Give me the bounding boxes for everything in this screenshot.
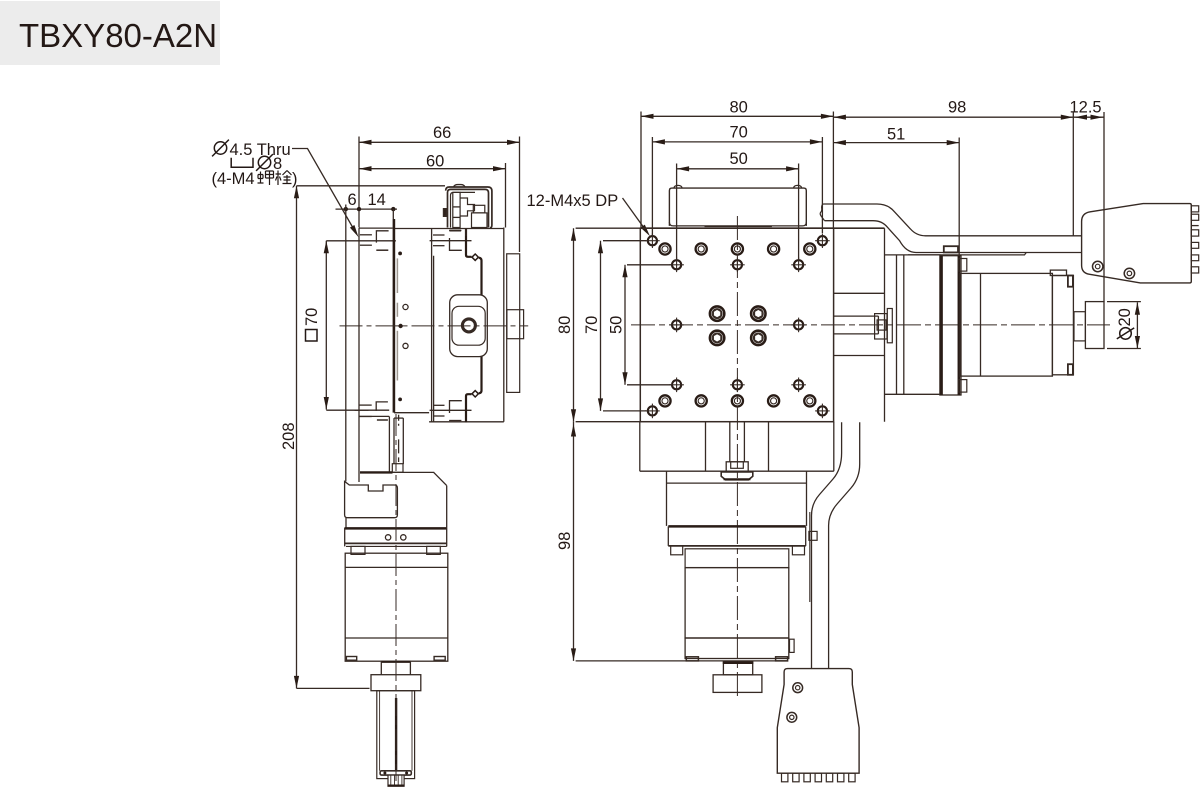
centerline vertical plan — [736, 216, 738, 699]
motor bottom foot left — [686, 657, 698, 661]
band bottom — [668, 545, 805, 547]
shaft end block — [392, 464, 403, 473]
bracket left edge — [345, 518, 347, 528]
shaft left — [393, 418, 395, 464]
side plate tab — [507, 310, 524, 339]
table left edge — [358, 228, 360, 482]
band top thick — [668, 525, 805, 528]
corner hole BR — [815, 404, 830, 419]
dim line 98 top — [833, 116, 1073, 118]
ref line 98 bottom — [576, 660, 686, 662]
svg-text:208: 208 — [280, 422, 298, 450]
svg-text:12-M4x5 DP: 12-M4x5 DP — [527, 192, 619, 210]
centerline horizontal left view — [340, 325, 529, 327]
svg-text:98: 98 — [556, 532, 574, 550]
cap top lip — [1050, 270, 1066, 275]
dim line 70 left — [600, 241, 602, 411]
leader line phi4.5 — [292, 149, 355, 231]
band left line — [812, 422, 842, 668]
plate top edge — [640, 227, 884, 229]
small hole — [403, 343, 408, 348]
tapped hole mid — [791, 318, 806, 333]
shaft top line — [394, 417, 403, 419]
dim line 70 top — [652, 141, 822, 143]
bracket inner bar — [453, 192, 460, 227]
arm upper edge — [823, 204, 1082, 236]
label phi symbol 4.5 — [212, 140, 229, 157]
connector screw 1 inner — [1095, 264, 1100, 269]
saddle step corner bottom — [450, 401, 462, 413]
coupling plate — [887, 309, 892, 343]
ref line 50 bottom — [627, 384, 671, 386]
line below bracket — [465, 229, 467, 237]
saddle long line — [430, 240, 472, 242]
svg-text:12.5: 12.5 — [1070, 99, 1102, 117]
base divider 2 — [768, 422, 770, 472]
cap tab top — [1068, 276, 1073, 287]
base bottom edge — [640, 470, 834, 472]
dim line 12.5 — [1073, 116, 1104, 118]
saddle profile top — [466, 229, 472, 257]
tapped hole row2 — [791, 258, 806, 273]
ext line 51 right — [958, 138, 960, 260]
flange thick right — [958, 256, 961, 395]
bracket top edge — [393, 471, 435, 473]
base top edge — [395, 228, 504, 230]
corner hole TR — [815, 233, 830, 248]
dim line 80 top — [641, 115, 833, 117]
top row hole 2 — [696, 243, 707, 254]
ref line phi20 top — [1107, 301, 1141, 303]
table bottom edge — [355, 409, 390, 411]
arm lower edge — [825, 221, 1082, 253]
svg-text:70: 70 — [583, 316, 601, 334]
collar top thick — [381, 661, 410, 663]
cap side tab — [790, 639, 795, 652]
ext line 66 right — [519, 137, 521, 253]
flange side tab bottom — [959, 380, 967, 393]
tube inner line — [411, 691, 413, 771]
ext line 98 right — [1072, 112, 1074, 236]
dim line sq70 — [325, 241, 327, 410]
motor divider 2 — [345, 637, 448, 639]
tapped hole row4 — [730, 378, 745, 393]
flange band left — [344, 528, 346, 547]
dim line 66 — [359, 141, 520, 143]
ext line 50 right — [798, 164, 800, 260]
saddle gap line 2 — [433, 256, 435, 422]
bracket chamfer — [434, 472, 447, 485]
tongue block body — [669, 188, 806, 226]
Y connector screw 2 inner — [790, 715, 794, 719]
saddle step line — [433, 245, 445, 247]
bracket right edge — [446, 486, 448, 528]
top row hole 3 — [732, 243, 743, 254]
top row hole 1 — [659, 243, 670, 254]
motor foot right — [792, 546, 804, 555]
centerline horizontal plan — [631, 324, 1110, 326]
bracket bar divider — [453, 216, 460, 218]
side block line — [834, 292, 885, 294]
svg-text:50: 50 — [608, 316, 626, 334]
ref line sq70 top — [326, 240, 396, 242]
svg-text:80: 80 — [556, 316, 574, 334]
svg-text:98: 98 — [948, 99, 966, 117]
motor body line — [980, 273, 982, 376]
Y connector teeth — [782, 773, 788, 782]
table step line bottom 2 — [359, 416, 371, 418]
tube outer — [377, 691, 415, 779]
svg-text:70: 70 — [730, 124, 748, 142]
flange hole — [385, 535, 390, 540]
mark below bracket — [450, 230, 462, 232]
flange hole — [401, 535, 406, 540]
ext line 60 right — [505, 163, 507, 228]
saddle gap line — [431, 229, 433, 422]
flange top line — [667, 482, 807, 484]
svg-text:51: 51 — [887, 126, 905, 144]
boss inner — [452, 306, 485, 345]
bracket inner frame — [451, 192, 476, 227]
svg-text:50: 50 — [730, 150, 748, 168]
table step line — [360, 234, 372, 236]
svg-text:20: 20 — [1116, 308, 1134, 326]
dim line phi20 — [1136, 302, 1138, 348]
ext line 14 — [392, 209, 394, 219]
dim line 80 left — [573, 228, 575, 422]
bottom row hole 2 — [696, 395, 707, 406]
knob block — [371, 675, 421, 691]
Y collar — [723, 662, 752, 675]
dim text phi20 — [1117, 328, 1134, 340]
table bottom edge 2 — [359, 415, 389, 417]
table lower column right edge — [388, 416, 390, 472]
screw housing bottom — [834, 333, 878, 335]
bracket top dome — [454, 185, 466, 187]
Y connector screw 2 outer — [787, 712, 797, 722]
svg-text:(4-M4: (4-M4 — [212, 170, 255, 188]
band left — [667, 526, 669, 546]
ext line 70 right — [821, 137, 823, 233]
dim text square-70 — [303, 308, 321, 341]
ref line 70 bottom — [603, 410, 647, 412]
tongue dome right — [794, 185, 802, 188]
corner hole BL — [645, 404, 660, 419]
flange side tab top — [959, 259, 967, 272]
flange foot right — [427, 546, 441, 554]
ext line 80 left — [640, 112, 642, 228]
dim line 6-14 — [336, 208, 398, 210]
teeth divider — [1191, 225, 1198, 227]
tongue cover left edge — [345, 205, 347, 482]
motor bottom notch right — [434, 657, 445, 661]
bracket line 2 — [903, 255, 905, 394]
coupling inner — [877, 320, 886, 330]
bracket E profile — [460, 198, 474, 216]
bracket outer frame — [448, 189, 489, 227]
saddle profile top right — [479, 258, 482, 295]
X shaft — [1074, 312, 1085, 341]
tapped hole row4 — [791, 378, 806, 393]
Y connector screw 1 inner — [796, 686, 800, 690]
motor bottom edge — [686, 660, 787, 662]
screw T plate bottom thick — [724, 478, 751, 480]
svg-text:): ) — [292, 170, 298, 188]
Y connector screw 1 outer — [793, 683, 803, 693]
motor upper section — [685, 549, 789, 568]
bottom row hole 3 — [732, 395, 743, 406]
edge line segment — [396, 303, 398, 317]
saddle notch diamond top — [472, 254, 478, 260]
ref line 208 bottom — [297, 687, 370, 689]
bracket lower block — [472, 213, 488, 228]
shaft right — [402, 418, 404, 464]
flange plate — [940, 256, 961, 395]
tongue block bottom round — [669, 222, 806, 226]
connector teeth — [1191, 206, 1198, 212]
ref line phi20 bottom — [1107, 348, 1141, 350]
bracket bottom edge — [885, 393, 941, 395]
edge line segment — [396, 331, 398, 381]
shaft hidden dash — [398, 415, 400, 426]
dim line 60 — [359, 168, 506, 170]
Y collar top thick — [723, 662, 754, 664]
flange band right — [446, 528, 448, 547]
table hidden dash bottom — [377, 419, 388, 421]
side block line 2 — [834, 355, 885, 357]
hanzi luo (bolt char 1) — [258, 172, 264, 184]
svg-text:80: 80 — [730, 99, 748, 117]
connector screw 2 inner — [1127, 271, 1132, 276]
table step corner bottom — [376, 402, 388, 411]
tapped hole row2 — [730, 258, 745, 273]
side block right edge — [884, 228, 886, 422]
bottom row hole 1 — [659, 395, 670, 406]
flange band top thick — [345, 527, 447, 530]
flange spacer line — [346, 545, 447, 547]
flange foot left — [351, 546, 365, 554]
plan main plate — [640, 228, 833, 422]
table step corner — [376, 231, 388, 243]
motor body X — [960, 273, 1053, 376]
saddle step line bottom — [433, 404, 445, 406]
leadscrew thick line — [395, 698, 397, 773]
motor foot left — [671, 546, 683, 555]
bracket line — [896, 255, 898, 394]
tapped hole row4 — [669, 378, 684, 393]
X knob — [1085, 302, 1104, 349]
tongue lip line — [705, 226, 772, 228]
leader arrowhead — [350, 225, 361, 238]
leader arrowhead 12-M4x5 — [641, 225, 653, 238]
centerline vertical left view — [395, 414, 397, 781]
dim line 50 top — [677, 168, 799, 170]
bracket small block — [473, 205, 485, 213]
cover box with notch — [345, 481, 398, 517]
Y connector outline — [777, 669, 859, 774]
svg-text:66: 66 — [433, 124, 451, 142]
tip block — [388, 775, 404, 786]
boss screw ring — [462, 319, 475, 332]
connector screw 2 outer — [1124, 268, 1134, 278]
socket screw BR — [751, 331, 765, 345]
saddle long line bottom — [430, 409, 472, 411]
ref line 80 top — [576, 227, 640, 229]
motor body — [345, 553, 448, 661]
flange band bottom — [345, 542, 447, 544]
bracket top edge thick — [360, 471, 393, 473]
dot pin — [398, 252, 402, 256]
ext line 66 left — [358, 137, 360, 228]
tip flange — [380, 771, 411, 775]
motor cap X — [1052, 276, 1073, 375]
table top edge — [359, 227, 393, 229]
saddle profile bottom right — [479, 357, 482, 394]
flange right edge — [806, 471, 808, 526]
flange top tab — [944, 246, 958, 252]
connector outline — [1082, 204, 1192, 283]
screw housing end — [877, 316, 879, 334]
ext line 12.5 right — [1103, 112, 1105, 302]
table step line 2 — [360, 244, 372, 246]
motor bottom notch left — [346, 657, 356, 661]
svg-text:8: 8 — [273, 155, 282, 173]
saddle step line — [449, 230, 461, 232]
top row hole 5 — [804, 243, 815, 254]
dim dot — [391, 207, 395, 211]
center screw left — [729, 422, 731, 462]
ref line sq70 bottom — [326, 409, 368, 411]
base divider — [705, 422, 707, 472]
bracket outer shell — [446, 187, 492, 228]
bracket top edge — [885, 254, 941, 256]
screw T plate — [721, 472, 753, 480]
connector screw 1 outer — [1093, 261, 1103, 271]
base right edge — [833, 422, 835, 472]
ext line 50 left — [676, 164, 678, 260]
tapped hole mid — [669, 318, 684, 333]
bracket side nub — [444, 209, 447, 216]
shaft hidden dash 2 — [398, 439, 400, 462]
svg-text:60: 60 — [426, 153, 444, 171]
counterbore symbol — [231, 158, 253, 167]
table step line bottom — [359, 404, 371, 406]
cap tab bottom — [1068, 364, 1073, 375]
top row hole 4 — [768, 243, 779, 254]
motor divider — [345, 566, 448, 568]
dot pin — [398, 398, 402, 402]
bracket bar divider — [453, 206, 460, 208]
side plate — [507, 254, 520, 393]
dot pin center — [398, 324, 402, 328]
flange thick left — [940, 256, 943, 395]
tongue dome left — [674, 185, 682, 188]
ref line 208 top — [297, 185, 446, 187]
tapped hole row2 — [669, 258, 684, 273]
ref line 50 top — [627, 264, 671, 266]
flange left edge — [666, 471, 668, 526]
collar sides — [381, 662, 410, 675]
svg-text:14: 14 — [368, 191, 386, 209]
dim dot — [344, 207, 348, 211]
bottom row hole 5 — [804, 395, 815, 406]
saddle step line bottom — [449, 420, 461, 422]
ref line 80 bottom — [576, 421, 640, 423]
ref line 70 top — [603, 240, 647, 242]
saddle notch diamond bottom — [472, 391, 478, 397]
tip bottom bar — [388, 784, 405, 786]
saddle step line — [433, 234, 445, 236]
table hidden dash — [376, 249, 388, 251]
thin plate line — [809, 512, 811, 602]
dim dot — [357, 207, 361, 211]
svg-text:70: 70 — [303, 308, 321, 326]
screw nut inner — [731, 462, 744, 469]
small hole — [403, 304, 408, 309]
arm break squiggle — [820, 204, 824, 221]
motor main body Y — [685, 568, 789, 638]
leader line 12-M4x5 — [623, 198, 648, 232]
tip dot — [383, 772, 386, 775]
base left edge — [639, 422, 641, 472]
tip line — [394, 775, 396, 786]
band right — [805, 526, 807, 546]
dim line 50 left — [624, 265, 626, 385]
tip line — [397, 775, 399, 786]
base right edge — [503, 228, 505, 422]
socket screw TR — [751, 306, 765, 320]
Y knob — [713, 675, 762, 693]
motor bottom foot right — [776, 657, 788, 661]
moving bottom edge — [394, 412, 429, 414]
edge line segment — [396, 258, 398, 293]
ext line 70 left — [651, 137, 653, 236]
label phi symbol 8 — [256, 154, 273, 171]
dim line 208 — [296, 186, 298, 689]
saddle step corner — [450, 238, 462, 250]
ext line 80/98 — [832, 112, 834, 229]
tip line — [401, 775, 403, 786]
motor bottom cap — [685, 638, 789, 659]
thin plate edge-on — [908, 253, 1026, 255]
bottom row hole 4 — [768, 395, 779, 406]
saddle profile bottom — [466, 394, 472, 422]
band side tab — [809, 531, 817, 540]
base bottom edge — [429, 421, 504, 423]
tip line — [390, 775, 392, 786]
boss outer — [450, 295, 488, 357]
band right line — [829, 422, 860, 668]
saddle step line bottom — [433, 415, 445, 417]
title block — [0, 1, 220, 65]
socket screw BL — [710, 331, 724, 345]
socket screw TL — [710, 306, 724, 320]
center screw right — [743, 422, 745, 462]
dim line 98 left — [573, 422, 575, 661]
table right edge thick — [393, 219, 396, 413]
screw nut — [726, 462, 748, 472]
dim line 51 — [833, 142, 959, 144]
screw housing top — [834, 315, 878, 317]
tip dot — [405, 772, 408, 775]
svg-text:TBXY80-A2N: TBXY80-A2N — [19, 17, 217, 54]
hanzi shuan (bolt char 2) — [276, 171, 282, 186]
coupling bracket — [875, 314, 887, 339]
corner hole TL — [645, 233, 660, 248]
tube inner line — [379, 691, 381, 771]
svg-text:6: 6 — [348, 191, 357, 209]
